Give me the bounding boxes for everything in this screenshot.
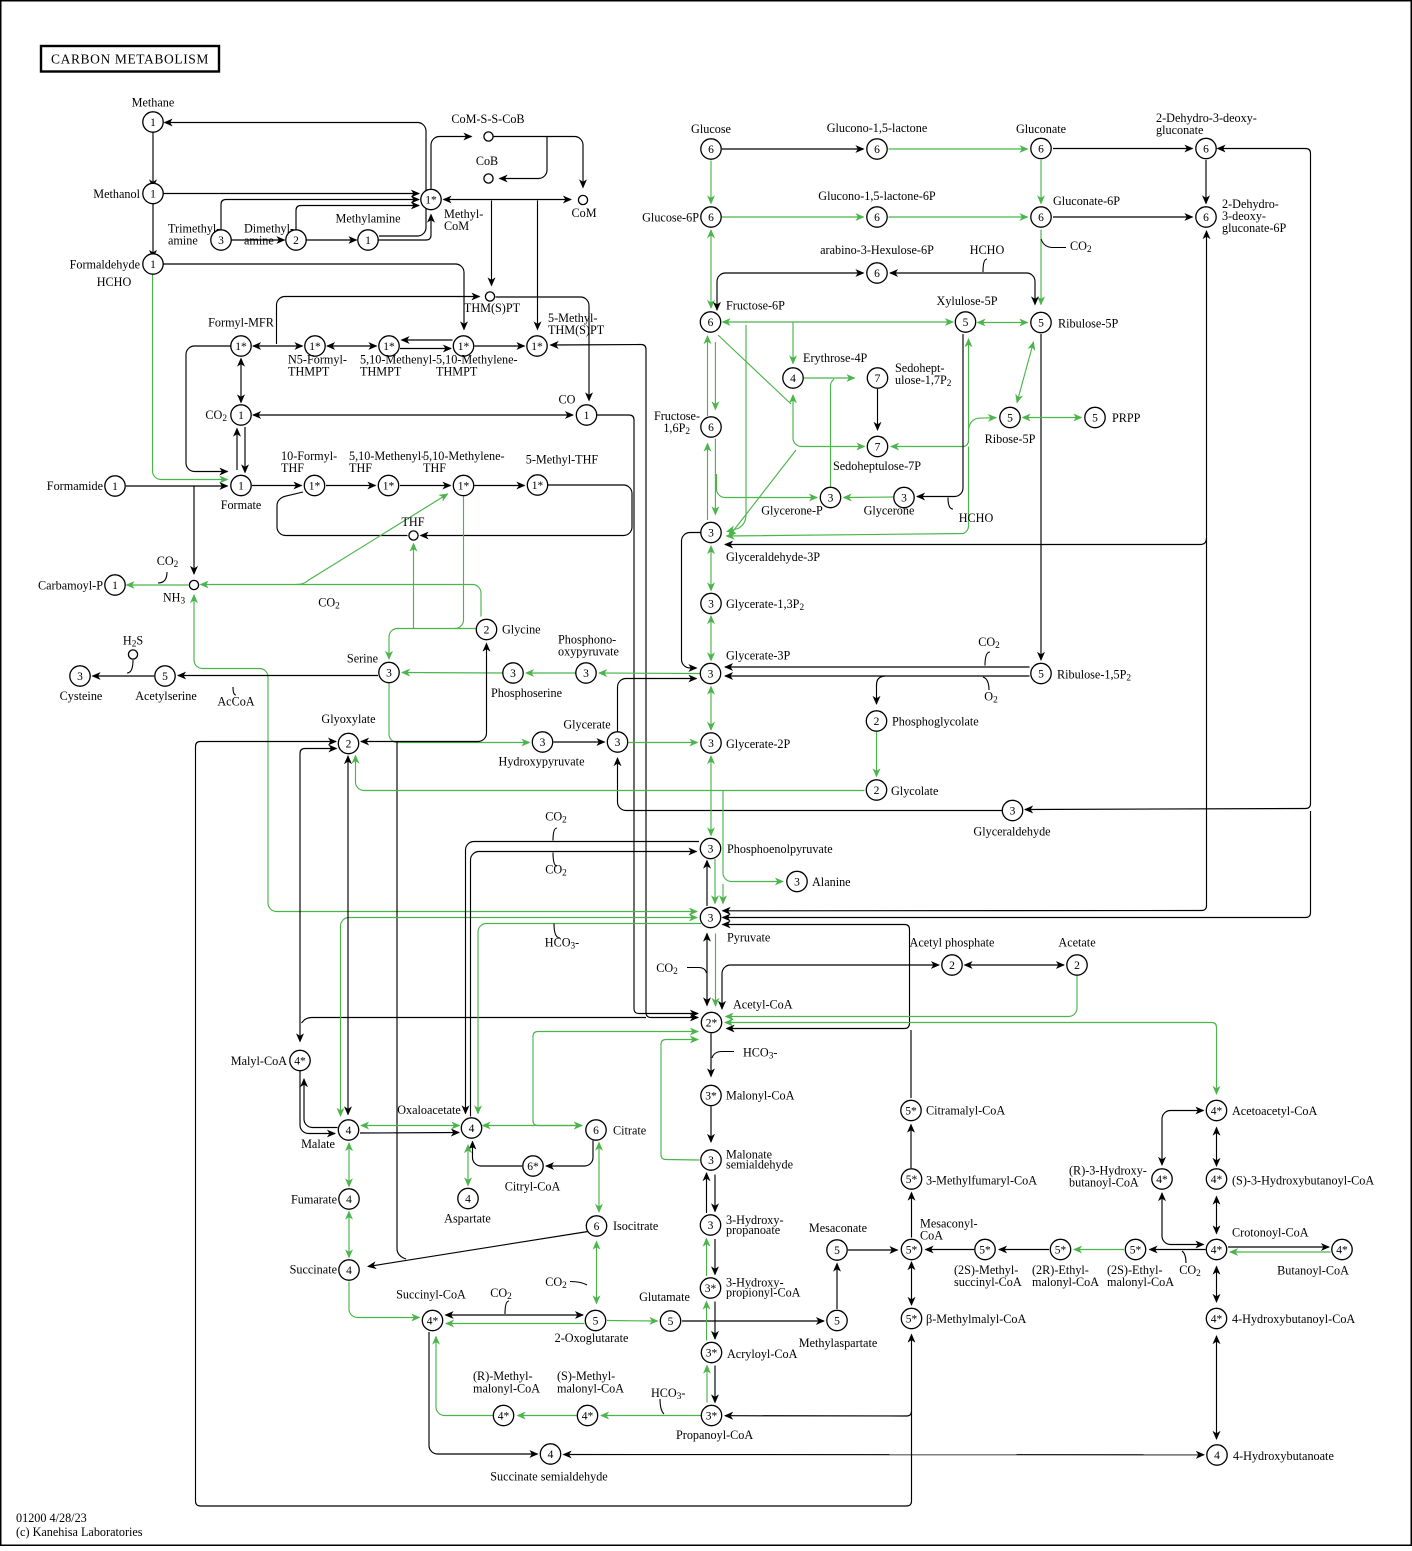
wire Formamide -> Formate xyxy=(126,485,228,487)
svg-text:4*: 4* xyxy=(1156,1174,1168,1186)
wire CoM-S-S-CoB -> CoM xyxy=(494,137,584,188)
wire Ribulose-5P -> Ribulose-1,5P2 xyxy=(1040,334,1042,660)
svg-text:5: 5 xyxy=(963,317,969,329)
svg-text:Glycine: Glycine xyxy=(502,623,541,637)
svg-text:3: 3 xyxy=(708,1155,714,1167)
svg-text:6: 6 xyxy=(1203,143,1209,155)
svg-text:CoB: CoB xyxy=(476,154,498,168)
svg-text:Glutamate: Glutamate xyxy=(639,1290,690,1304)
wire S-3-Hydroxybutanoyl <-> Crotonoyl xyxy=(1216,1197,1218,1234)
wire PEP -> Oxaloacetate xyxy=(466,842,700,1114)
svg-text:4: 4 xyxy=(1214,1450,1220,1462)
label connector AcCoA xyxy=(233,687,236,695)
wire beta-Methylmalyl branch -> Propanoyl-CoA xyxy=(725,1411,912,1416)
svg-text:4-Hydroxybutanoyl-CoA: 4-Hydroxybutanoyl-CoA xyxy=(1232,1312,1355,1326)
svg-text:3: 3 xyxy=(386,667,392,679)
svg-text:Erythrose-4P: Erythrose-4P xyxy=(803,351,868,365)
svg-text:THM(S)PT: THM(S)PT xyxy=(464,301,521,315)
svg-text:Glycerate-1,3P2: Glycerate-1,3P2 xyxy=(726,597,804,613)
wire Ribulose-1,5P2 -> Glycerate-3P upper xyxy=(725,666,1030,668)
wire Oxaloacetate -> PEP xyxy=(471,852,697,1117)
svg-text:4: 4 xyxy=(469,1123,475,1135)
label connector HCO3- pyruvate xyxy=(554,924,560,939)
wire Crotonoyl -> Butanoyl-CoA xyxy=(1228,1246,1329,1248)
wire Xylulose-5P -> Glycerone + HCHO xyxy=(917,334,963,497)
wire transketolase diagonal F6P green xyxy=(718,335,791,404)
svg-text:4*: 4* xyxy=(1211,1313,1223,1325)
node Formate xyxy=(231,475,251,495)
wire Succinyl-CoA -> Succinate semialdehyde xyxy=(429,1332,538,1454)
wire Erythrose-4P <-> Sedoheptulose-7P green xyxy=(793,395,865,447)
node CoM-S-S-CoB xyxy=(484,132,493,141)
svg-text:1: 1 xyxy=(112,580,118,592)
svg-text:Aspartate: Aspartate xyxy=(444,1212,491,1226)
node Formaldehyde xyxy=(143,254,163,274)
node Dimethylamine xyxy=(286,230,306,250)
wire Isocitrate <-> 2-Oxoglutarate green xyxy=(596,1242,598,1304)
svg-text:Glycolate: Glycolate xyxy=(891,784,938,798)
wire 3-Hydroxypropionyl-CoA -> Acryloyl-CoA xyxy=(714,1302,716,1340)
wire Methanol -> Methyl-CoM xyxy=(163,193,419,195)
wire Crotonoyl <-> 4-Hydroxybutanoyl xyxy=(1216,1267,1218,1303)
wire Pyruvate <-> Acetyl-CoA xyxy=(706,934,708,1006)
wire Acetyl phosphate <-> Acetate xyxy=(965,964,1065,966)
svg-text:1*: 1* xyxy=(531,341,543,353)
svg-text:5*: 5* xyxy=(906,1174,918,1186)
node Propanoyl-CoA xyxy=(701,1405,721,1425)
wire R-3-Hydroxybutanoyl <-> Acetoacetyl-CoA xyxy=(1162,1111,1204,1166)
svg-text:Butanoyl-CoA: Butanoyl-CoA xyxy=(1277,1264,1349,1278)
node Malonyl-CoA xyxy=(701,1085,721,1105)
svg-text:Acetylserine: Acetylserine xyxy=(135,689,197,703)
svg-text:5*: 5* xyxy=(1130,1244,1142,1256)
wire CODH/ACS bus 5-Methyl-THM(S)PT/CO -> Acetyl-CoA xyxy=(641,345,698,1018)
label connector CO2 OAA-PEP xyxy=(553,853,557,867)
wire Glycerone-P -> Sedoheptulose-1,7P2 merge green xyxy=(831,379,835,487)
node Malate xyxy=(338,1120,358,1140)
wire Glycerate -> Glycerate-2P green xyxy=(629,742,698,744)
node Ribulose-1,5P2 xyxy=(1031,663,1051,683)
svg-text:5*: 5* xyxy=(905,1105,917,1117)
wire right bus lower -> Pyruvate xyxy=(723,811,1311,918)
svg-text:gluconate: gluconate xyxy=(1156,123,1203,137)
svg-text:Citramalyl-CoA: Citramalyl-CoA xyxy=(926,1104,1005,1118)
wire Glycine <-> Glyoxylate xyxy=(361,644,487,742)
wire 2S -> 2R-Methylmalonyl green xyxy=(518,1415,577,1417)
wire Propanoyl -> 2S-Methylmalonyl green + HCO3- xyxy=(601,1415,701,1417)
svg-text:malonyl-CoA: malonyl-CoA xyxy=(1107,1275,1174,1289)
node Formamide xyxy=(105,476,125,496)
svg-text:THMPT: THMPT xyxy=(288,365,330,379)
svg-text:Malonyl-CoA: Malonyl-CoA xyxy=(726,1089,795,1103)
svg-text:1*: 1* xyxy=(383,341,395,353)
node 5,10-Methylene-THMPT xyxy=(453,336,473,356)
node Isocitrate xyxy=(586,1216,606,1236)
wire Formyl-MFR loop -> Formate xyxy=(186,346,231,472)
svg-text:1*: 1* xyxy=(458,480,470,492)
node 10-Formyl-THF xyxy=(304,475,324,495)
wire PEP -> Pyruvate green xyxy=(714,859,716,904)
svg-text:3-Methylfumaryl-CoA: 3-Methylfumaryl-CoA xyxy=(926,1174,1037,1188)
svg-text:THF: THF xyxy=(349,461,372,475)
svg-text:Ribulose-5P: Ribulose-5P xyxy=(1058,317,1118,331)
svg-text:5*: 5* xyxy=(906,1313,918,1325)
wire Glucose-6P <-> Fructose-6P green xyxy=(710,230,712,308)
wire Ribulose-5P <-> Ribose-5P green diagonal xyxy=(1017,342,1034,403)
wire Glycerate-3P <-> Glycerate-2P green xyxy=(710,687,712,731)
svg-text:Phosphoenolpyruvate: Phosphoenolpyruvate xyxy=(727,842,833,856)
svg-text:6: 6 xyxy=(708,144,714,156)
wire Glutamate -> Methylaspartate xyxy=(682,1320,824,1322)
wire Formyl-MFR <-> N5-Formyl-THMPT xyxy=(253,345,303,347)
svg-text:1*: 1* xyxy=(309,480,321,492)
wire CO2 <-> CO xyxy=(253,414,573,416)
svg-text:Formate: Formate xyxy=(221,498,262,512)
node Trimethylamine xyxy=(211,230,231,250)
svg-text:THF: THF xyxy=(423,461,446,475)
label connector H2S xyxy=(127,660,133,673)
node Succinate xyxy=(339,1260,359,1280)
svg-text:2: 2 xyxy=(346,738,352,750)
wire Acetyl-CoA <-> Acetoacetyl-CoA green xyxy=(725,1023,1217,1095)
wire NH3 row -> 5,10-Methylene-THF diagonal green xyxy=(296,494,448,585)
svg-text:Glyceraldehyde: Glyceraldehyde xyxy=(973,825,1050,839)
wire Glycolate -> Glyoxylate green xyxy=(356,756,865,791)
wire Fructose-6P <-> arabino-3-Hexulose-6P xyxy=(717,273,864,310)
svg-text:Gluconate-6P: Gluconate-6P xyxy=(1053,194,1120,208)
wire -> Erythrose-4P green xyxy=(792,323,794,364)
svg-text:(c) Kanehisa Laboratories: (c) Kanehisa Laboratories xyxy=(16,1525,143,1539)
svg-text:semialdehyde: semialdehyde xyxy=(726,1158,793,1172)
svg-text:3*: 3* xyxy=(706,1347,718,1359)
wire arabino-3-Hexulose-6P <- Ribulose-5P + HCHO xyxy=(890,273,1035,305)
wire N5-Formyl <-> 5,10-Methenyl-THMPT xyxy=(327,345,377,347)
wire Succinate -> Succinyl-CoA green xyxy=(349,1282,420,1318)
node H2S xyxy=(128,650,137,659)
svg-text:6: 6 xyxy=(1038,212,1044,224)
node arabino-3-Hexulose-6P xyxy=(867,263,887,283)
wire 2-Dehydro-3-deoxy-gluconate-6P bus -> Pyruvate xyxy=(723,231,1207,911)
svg-text:Acetate: Acetate xyxy=(1058,936,1095,950)
svg-text:1: 1 xyxy=(150,188,156,200)
svg-text:4*: 4* xyxy=(1211,1244,1223,1256)
svg-text:4: 4 xyxy=(346,1125,352,1137)
svg-text:β-Methylmalyl-CoA: β-Methylmalyl-CoA xyxy=(926,1312,1027,1326)
node Glucono-1,5-lactone-6P xyxy=(867,207,887,227)
node Malyl-CoA xyxy=(290,1050,310,1070)
node Phosphono-oxypyruvate xyxy=(576,663,596,683)
svg-text:malonyl-CoA: malonyl-CoA xyxy=(557,1382,624,1396)
wire 10-Formyl-THF -> THF xyxy=(277,492,408,536)
svg-text:CoM-S-S-CoB: CoM-S-S-CoB xyxy=(451,112,524,126)
wire CO -> Acetyl-CoA bus xyxy=(597,415,698,1014)
svg-text:4-Hydroxybutanoate: 4-Hydroxybutanoate xyxy=(1233,1449,1334,1463)
svg-text:Propanoyl-CoA: Propanoyl-CoA xyxy=(676,1428,753,1442)
svg-text:4*: 4* xyxy=(294,1055,306,1067)
svg-text:6: 6 xyxy=(874,144,880,156)
node CoM xyxy=(578,195,587,204)
node Acetyl-CoA xyxy=(701,1012,721,1032)
node Acetyl phosphate xyxy=(942,955,962,975)
svg-text:6*: 6* xyxy=(527,1161,539,1173)
wire Succinate semialdehyde <-> 4-Hydroxybutanoate xyxy=(564,1454,1205,1456)
wire Glycerate-2P <-> PEP green xyxy=(710,756,712,836)
node Succinate semialdehyde xyxy=(540,1444,560,1464)
svg-text:4: 4 xyxy=(548,1449,554,1461)
node CoB xyxy=(484,174,493,183)
node Glyoxylate xyxy=(338,733,358,753)
node Glycerate-3P xyxy=(700,663,720,683)
svg-text:5: 5 xyxy=(834,1245,840,1257)
wire Glycerate-1,3P2 <-> Glycerate-3P green xyxy=(710,616,712,661)
svg-text:Acryloyl-CoA: Acryloyl-CoA xyxy=(727,1347,798,1361)
svg-text:1*: 1* xyxy=(458,341,470,353)
wire glycine link green xyxy=(455,628,477,630)
svg-text:6: 6 xyxy=(593,1125,599,1137)
svg-text:6: 6 xyxy=(708,422,714,434)
svg-text:Succinate: Succinate xyxy=(290,1263,337,1277)
wire pentose bus -> Ribose-5P green xyxy=(727,447,969,537)
wire Glucose -> Glucose-6P green xyxy=(710,161,712,204)
svg-text:malonyl-CoA: malonyl-CoA xyxy=(473,1382,540,1396)
svg-text:oxypyruvate: oxypyruvate xyxy=(558,645,619,659)
node Glycolate xyxy=(866,780,886,800)
svg-text:Ribose-5P: Ribose-5P xyxy=(985,432,1036,446)
svg-text:1*: 1* xyxy=(532,480,544,492)
svg-text:Sedoheptulose-7P: Sedoheptulose-7P xyxy=(833,459,921,473)
node Methane xyxy=(143,112,163,132)
wire Dimethylamine -> Methyl-CoM xyxy=(296,206,419,230)
wire 3-Methylfumaryl -> Citramalyl-CoA xyxy=(910,1125,912,1169)
node N5-Formyl-THMPT xyxy=(305,336,325,356)
svg-text:2: 2 xyxy=(874,785,880,797)
svg-text:CoA: CoA xyxy=(920,1229,943,1243)
node Glycerate-1,3P2 xyxy=(701,593,721,613)
wire CoM-S-S-CoB -> CoB xyxy=(500,137,548,179)
svg-text:(S)-3-Hydroxybutanoyl-CoA: (S)-3-Hydroxybutanoyl-CoA xyxy=(1232,1174,1374,1188)
svg-text:3*: 3* xyxy=(706,1410,718,1422)
wire lactone-6P -> Gluconate-6P green xyxy=(889,216,1028,218)
svg-text:Crotonoyl-CoA: Crotonoyl-CoA xyxy=(1232,1226,1309,1240)
svg-text:7: 7 xyxy=(875,373,881,385)
wire 5,10-Methylene-THF -> Serine green xyxy=(389,497,464,660)
node Citryl-CoA xyxy=(523,1156,543,1176)
wire Acryloyl-CoA -> Propanoyl-CoA xyxy=(714,1366,716,1403)
label connector HCHO glycerone xyxy=(948,498,953,510)
node 2-Oxoglutarate xyxy=(585,1310,605,1330)
node Methyl-CoM xyxy=(421,189,441,209)
node Oxaloacetate xyxy=(461,1118,481,1138)
svg-text:2: 2 xyxy=(949,960,955,972)
svg-text:4*: 4* xyxy=(1211,1174,1223,1186)
svg-text:Citryl-CoA: Citryl-CoA xyxy=(505,1180,561,1194)
svg-text:5: 5 xyxy=(1007,412,1013,424)
wire Methanol -> Formaldehyde xyxy=(152,204,154,258)
node beta-Methylmalyl-CoA xyxy=(901,1308,921,1328)
svg-text:4*: 4* xyxy=(1336,1244,1348,1256)
svg-text:4*: 4* xyxy=(582,1410,594,1422)
svg-text:Acetyl-CoA: Acetyl-CoA xyxy=(733,998,793,1012)
wire Methane -> Methanol xyxy=(152,133,154,188)
wire Acetyl-CoA <-> Malonate semialdehyde green xyxy=(661,1040,700,1161)
node Glucose-6P xyxy=(701,207,721,227)
svg-text:5-Methyl-THF: 5-Methyl-THF xyxy=(526,453,599,467)
wire NH3 <-> Pyruvate long green bus xyxy=(194,595,697,912)
svg-text:Mesaconate: Mesaconate xyxy=(809,1221,867,1235)
wire 2-Dehydro-3-deoxy-gluconate -> -6P xyxy=(1205,160,1207,204)
wire Mesaconyl-CoA -> 3-Methylfumaryl-CoA xyxy=(911,1193,913,1238)
svg-text:5: 5 xyxy=(1092,412,1098,424)
svg-text:Oxaloacetate: Oxaloacetate xyxy=(397,1103,461,1117)
wire Methylamine -> Methyl-CoM xyxy=(379,215,432,241)
node 5,10-Methylene-THF xyxy=(453,475,473,495)
svg-text:Phosphoserine: Phosphoserine xyxy=(491,686,562,700)
wire Malyl-CoA <-> Glyoxylate xyxy=(300,749,337,1042)
wire Malonyl-CoA -> Malonate semialdehyde xyxy=(710,1107,712,1143)
wire Glycine -> NH3 green xyxy=(201,585,482,617)
svg-text:4*: 4* xyxy=(427,1315,439,1327)
node 5-Methyl-THM(S)PT xyxy=(527,336,547,356)
wire Glyceraldehyde-3P -> Fructose-1,6P2 green xyxy=(707,444,709,521)
wire Formyl branch -> THM(S)PT xyxy=(277,297,480,345)
wire Acryloyl-CoA -> 3-Hydroxypropionyl-CoA green xyxy=(706,1302,708,1341)
wire R-3-Hydroxybutanoyl <-> Crotonoyl-CoA xyxy=(1162,1193,1204,1245)
svg-text:THM(S)PT: THM(S)PT xyxy=(548,323,605,337)
wire Sedoheptulose-1,7P2 -> Sedoheptulose-7P xyxy=(877,389,879,430)
wire glyoxylate TCA link down xyxy=(397,742,406,1260)
wire Gluconate-6P -> 2-Dehydro-3-deoxy-gluconate-6P xyxy=(1053,216,1193,218)
wire Glycerate-3P -> Phosphono-oxypyruvate green xyxy=(599,672,700,675)
wire Formyl-MFR <-> CO2 xyxy=(240,359,242,403)
svg-text:CoM: CoM xyxy=(571,206,596,220)
node Phosphoserine xyxy=(503,663,523,683)
node Methylaspartate xyxy=(827,1310,847,1330)
wire Acetyl-CoA -> Malyl-CoA west xyxy=(302,1018,647,1024)
svg-text:CO: CO xyxy=(559,393,576,407)
svg-text:1: 1 xyxy=(238,480,244,492)
svg-text:5*: 5* xyxy=(979,1244,991,1256)
node 2S-Methylsuccinyl-CoA xyxy=(975,1239,995,1259)
node Erythrose-4P xyxy=(783,368,803,388)
svg-text:3*: 3* xyxy=(705,1090,717,1102)
svg-text:2: 2 xyxy=(293,235,299,247)
svg-text:amine: amine xyxy=(244,234,274,248)
wire Fructose-1,6P2 -> Fructose-6P green xyxy=(707,336,709,416)
svg-text:3: 3 xyxy=(708,527,714,539)
wire Pyruvate <-> Acetyl-CoA right loop via Citramalyl xyxy=(723,925,910,1029)
svg-text:6: 6 xyxy=(874,268,880,280)
wire 10-Formyl -> 5,10-Methenyl-THF xyxy=(326,485,376,487)
wire 2-Dehydro-3-deoxy-gluconate right bus -> Glyceraldehyde xyxy=(1025,149,1311,810)
svg-text:THMPT: THMPT xyxy=(436,365,478,379)
wire Malate <-> Oxaloacetate green xyxy=(361,1125,460,1127)
wire 5,10-Methenyl <- 5,10-Methylene upper xyxy=(402,339,453,341)
node Mesaconyl-CoA xyxy=(901,1239,921,1259)
label connector CO2 succinyl xyxy=(505,1301,509,1314)
svg-text:Citrate: Citrate xyxy=(613,1124,646,1138)
node S-3-Hydroxybutanoyl-CoA xyxy=(1206,1169,1226,1189)
svg-text:HCHO: HCHO xyxy=(970,243,1005,257)
wire Trimethylamine -> Dimethylamine xyxy=(232,239,285,241)
svg-text:Phosphoglycolate: Phosphoglycolate xyxy=(892,715,979,729)
svg-text:6: 6 xyxy=(1038,143,1044,155)
wire THM(S)PT -> CO xyxy=(496,297,590,401)
wire Isocitrate -> Succinate diagonal xyxy=(368,1232,588,1267)
label connector CO2 PEP-OAA xyxy=(553,828,557,841)
node Formyl-MFR xyxy=(231,336,251,356)
svg-text:4*: 4* xyxy=(498,1410,510,1422)
node S-Methylmalonyl-CoA xyxy=(577,1405,597,1425)
node 4-Hydroxybutanoate xyxy=(1207,1445,1227,1465)
svg-text:3: 3 xyxy=(615,737,621,749)
wire Malonate semialdehyde -> 3-Hydroxypropanoate xyxy=(714,1175,716,1212)
wire Erythrose-4P -> Sedoheptulose-1,7P2 green xyxy=(804,377,855,379)
node 5,10-Methenyl-THF xyxy=(378,475,398,495)
svg-text:1: 1 xyxy=(150,259,156,271)
wire pentose bus -> Xylulose-5P green xyxy=(968,339,970,443)
svg-text:5: 5 xyxy=(1038,317,1044,329)
wire Acetyl-CoA <-> Acetyl phosphate xyxy=(722,965,939,1009)
svg-text:Glyceraldehyde-3P: Glyceraldehyde-3P xyxy=(726,550,820,564)
node THF xyxy=(409,531,418,540)
svg-text:Glycerone: Glycerone xyxy=(864,504,915,518)
svg-text:4: 4 xyxy=(346,1194,352,1206)
node Phosphoenolpyruvate xyxy=(700,838,720,858)
label connector CO2 NH3 xyxy=(158,572,167,583)
node Glucose xyxy=(701,139,721,159)
svg-text:2: 2 xyxy=(874,716,880,728)
svg-text:CARBON METABOLISM: CARBON METABOLISM xyxy=(51,52,209,67)
node Alanine xyxy=(787,871,807,891)
svg-text:Carbamoyl-P: Carbamoyl-P xyxy=(38,579,103,593)
wire methyl transfer -> 5-Methyl-THM(S)PT xyxy=(537,201,539,330)
svg-text:3: 3 xyxy=(1010,805,1016,817)
wire Formate -> CO2 xyxy=(236,429,238,471)
wire methyl transfer -> THM(S)PT xyxy=(491,201,493,286)
node 3-Hydroxypropionyl-CoA xyxy=(700,1278,720,1298)
wire Glucose -> Glucono-1,5-lactone xyxy=(722,148,864,150)
svg-text:5*: 5* xyxy=(906,1244,918,1256)
wire Methyl-CoM <-> CoM xyxy=(444,199,572,201)
node 4-Hydroxybutanoyl-CoA xyxy=(1206,1308,1226,1328)
wire Trimethylamine -> Methyl-CoM xyxy=(221,200,419,230)
node NH3 xyxy=(189,580,198,589)
svg-text:Formyl-MFR: Formyl-MFR xyxy=(208,316,275,330)
svg-text:Glycerate-3P: Glycerate-3P xyxy=(726,649,791,663)
svg-text:Pyruvate: Pyruvate xyxy=(727,931,770,945)
wire Malate <-> Pyruvate green bus xyxy=(341,918,698,1117)
node Glycerone xyxy=(894,487,914,507)
wire pentose bus -> Sedoheptulose-7P green xyxy=(891,446,962,448)
wire Formaldehyde -> Formate green xyxy=(153,275,228,480)
wire 4-Hydroxybutanoyl-CoA <-> 4-Hydroxybutanoate xyxy=(1216,1336,1218,1439)
svg-text:Malate: Malate xyxy=(301,1137,335,1151)
svg-text:6: 6 xyxy=(708,212,714,224)
wire Mesaconate -> Mesaconyl-CoA xyxy=(848,1249,898,1251)
svg-text:Gluconate: Gluconate xyxy=(1016,122,1066,136)
title box CARBON METABOLISM xyxy=(41,46,219,72)
wire Pyruvate -> Oxaloacetate green xyxy=(478,924,701,1114)
wire Succinyl-CoA <-> 2-Oxoglutarate xyxy=(446,1314,584,1316)
svg-text:Glucose-6P: Glucose-6P xyxy=(642,211,699,225)
wire CO2 -> Formate xyxy=(244,427,246,473)
node Glycerone-P xyxy=(820,487,840,507)
wire 5,10-Methenyl -> 5,10-Methylene-THF xyxy=(400,485,451,487)
wire 5,10-Methylene-THMPT -> 5-Methyl xyxy=(475,345,525,347)
node PRPP xyxy=(1085,407,1105,427)
svg-text:3: 3 xyxy=(828,492,834,504)
wire Oxaloacetate <-> Aspartate green xyxy=(467,1145,469,1186)
